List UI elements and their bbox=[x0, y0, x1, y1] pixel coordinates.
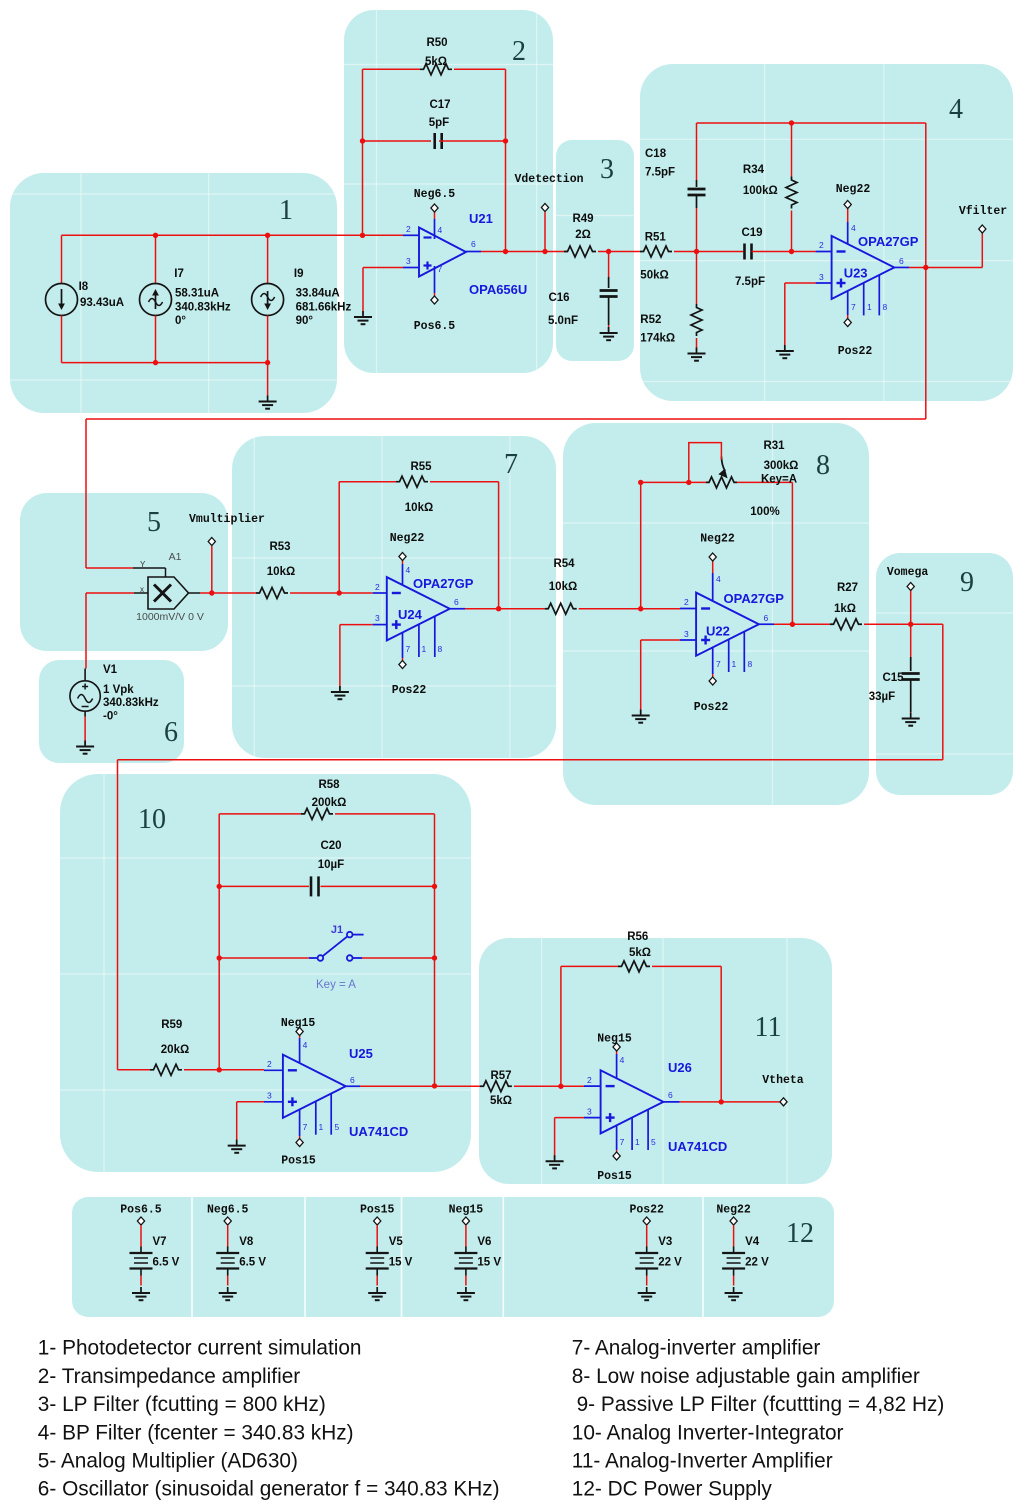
wire net input row bbox=[62, 234, 404, 236]
svg-text:6: 6 bbox=[668, 1090, 673, 1100]
region block 10 background bbox=[60, 774, 471, 1172]
value I9 bbox=[296, 288, 340, 300]
junction n10a bbox=[217, 1067, 222, 1072]
value R52 bbox=[640, 333, 675, 345]
junction C16 tap bbox=[606, 249, 611, 254]
wire from R56 bbox=[652, 965, 721, 967]
svg-text:1: 1 bbox=[422, 644, 427, 654]
svg-text:Neg22: Neg22 bbox=[836, 183, 871, 196]
svg-text:7: 7 bbox=[303, 1122, 308, 1132]
wire bbox=[376, 10, 378, 373]
svg-text:22 V: 22 V bbox=[658, 1257, 682, 1269]
wire long feedback down bbox=[85, 419, 87, 568]
value R58 bbox=[312, 797, 347, 809]
region block 9 background bbox=[876, 553, 1013, 795]
wire U23 + input bbox=[785, 282, 816, 284]
svg-text:10kΩ: 10kΩ bbox=[405, 502, 433, 514]
wire bbox=[232, 685, 556, 687]
wire U22 output bbox=[774, 623, 830, 625]
svg-text:OPA27GP: OPA27GP bbox=[413, 576, 474, 591]
node Neg22 connector connector bbox=[730, 1217, 737, 1225]
potentiometer R31 bbox=[706, 457, 737, 488]
svg-text:Neg6.5: Neg6.5 bbox=[207, 1204, 249, 1217]
svg-text:R53: R53 bbox=[269, 541, 290, 553]
value C19 bbox=[735, 276, 765, 288]
wire V3 top lead bbox=[646, 1225, 648, 1247]
node Vtheta connector bbox=[780, 1098, 787, 1106]
net Pos22 U23 bbox=[838, 345, 873, 358]
switch J1 bbox=[309, 932, 364, 961]
svg-text:100%: 100% bbox=[750, 506, 779, 518]
wire from J1 bbox=[362, 957, 435, 959]
svg-text:U23: U23 bbox=[844, 266, 868, 281]
svg-text:OPA27GP: OPA27GP bbox=[858, 234, 919, 249]
label V7 bbox=[153, 1236, 167, 1248]
block 12 divider seams bbox=[192, 1197, 703, 1317]
wire feedback right leg bbox=[434, 814, 436, 1086]
wire R27 to Vomega bbox=[864, 623, 911, 625]
part UA741CD U26 bbox=[668, 1139, 727, 1154]
value V6 bbox=[477, 1257, 501, 1269]
section number 2 bbox=[512, 36, 526, 67]
section number 3 bbox=[600, 154, 614, 185]
wire to R34 bbox=[791, 123, 793, 177]
svg-text:4: 4 bbox=[620, 1055, 625, 1065]
label R59 bbox=[161, 1019, 182, 1031]
wire bbox=[563, 522, 869, 524]
label C15 bbox=[882, 672, 904, 684]
wire U26 + input bbox=[555, 1117, 584, 1119]
svg-text:8- Low noise adjustable gain a: 8- Low noise adjustable gain amplifier bbox=[572, 1365, 920, 1388]
region block 8 background bbox=[563, 423, 869, 805]
capacitor C16 bbox=[600, 291, 618, 297]
battery V5 bbox=[366, 1247, 389, 1276]
resistor R49 bbox=[564, 246, 596, 257]
value R27 bbox=[834, 603, 856, 615]
label V8 bbox=[239, 1236, 254, 1248]
ground bbox=[902, 713, 920, 726]
wire I7 top lead bbox=[155, 235, 157, 283]
value R54 bbox=[549, 581, 577, 593]
wire V7 bottom lead bbox=[140, 1276, 142, 1286]
wire bbox=[60, 857, 471, 859]
label A1 bbox=[169, 551, 182, 563]
wire U25 output bbox=[360, 1085, 480, 1087]
svg-text:4- BP Filter (fcenter = 340.83: 4- BP Filter (fcenter = 340.83 kHz) bbox=[38, 1421, 354, 1444]
svg-text:Neg22: Neg22 bbox=[700, 533, 735, 546]
label R51 bbox=[645, 232, 667, 244]
svg-text:300kΩ: 300kΩ bbox=[764, 460, 799, 472]
resistor R52 bbox=[691, 304, 702, 336]
wire to R31 bbox=[641, 481, 706, 483]
label U22 bbox=[706, 624, 730, 639]
wire Vfilter stub bbox=[981, 233, 983, 267]
svg-text:6: 6 bbox=[471, 239, 476, 249]
wire U26 pin4 stub bbox=[616, 1051, 618, 1054]
junction n1d bbox=[153, 360, 158, 365]
wire C19 to U23 bbox=[752, 251, 816, 253]
svg-text:I7: I7 bbox=[174, 268, 184, 280]
ground bbox=[776, 345, 794, 358]
node Pos6.5 at U21 connector bbox=[431, 296, 438, 304]
svg-text:1kΩ: 1kΩ bbox=[834, 603, 856, 615]
svg-text:OPA27GP: OPA27GP bbox=[724, 591, 785, 606]
wire bbox=[883, 64, 885, 401]
net Neg15 U26 bbox=[597, 1033, 632, 1046]
wire bbox=[344, 64, 553, 66]
wire long feedback horizontal bbox=[86, 418, 926, 420]
svg-text:Neg15: Neg15 bbox=[597, 1033, 632, 1046]
wire X lead bbox=[134, 592, 148, 594]
freq V1 bbox=[103, 697, 159, 709]
wire to R50 bbox=[363, 68, 421, 70]
junction n8d bbox=[790, 622, 795, 627]
value I7 bbox=[175, 288, 219, 300]
ground bbox=[331, 686, 349, 699]
svg-text:UA741CD: UA741CD bbox=[668, 1139, 727, 1154]
op-amp U21 bbox=[403, 219, 481, 293]
wire to C17 bbox=[363, 140, 432, 142]
svg-text:6: 6 bbox=[164, 717, 178, 748]
value A1 bbox=[136, 611, 204, 623]
section number 12 bbox=[786, 1218, 814, 1249]
junction n2a bbox=[360, 138, 365, 143]
svg-text:U21: U21 bbox=[469, 211, 493, 226]
net Pos6.5 bbox=[414, 320, 456, 333]
value R49 bbox=[575, 229, 591, 241]
svg-text:C15: C15 bbox=[882, 672, 904, 684]
wire to R58 bbox=[219, 813, 301, 815]
wire to ground bbox=[339, 625, 341, 690]
wire to R56 bbox=[561, 965, 618, 967]
wire from R50 bbox=[454, 68, 506, 70]
label R52 bbox=[640, 314, 661, 326]
wire A1 output lead bbox=[189, 592, 201, 594]
value I8 bbox=[80, 297, 124, 309]
value C15 bbox=[869, 691, 895, 703]
section number 8 bbox=[816, 450, 830, 481]
wire V1 to ground bbox=[84, 717, 86, 745]
junction n11a bbox=[558, 1084, 563, 1089]
switch J1 label bbox=[331, 924, 343, 936]
wire to R52 bbox=[696, 252, 698, 305]
net Neg22 bbox=[716, 1204, 751, 1217]
svg-text:4: 4 bbox=[949, 94, 963, 125]
value R56 bbox=[629, 947, 651, 959]
svg-text:9: 9 bbox=[960, 567, 974, 598]
wire bbox=[764, 64, 766, 401]
label V5 bbox=[389, 1236, 404, 1248]
svg-text:7: 7 bbox=[620, 1137, 625, 1147]
wire U25 pin7 stub bbox=[299, 1136, 301, 1139]
ground bbox=[600, 327, 618, 340]
source V1 bbox=[70, 681, 100, 711]
svg-text:2: 2 bbox=[684, 597, 689, 607]
wire bbox=[640, 138, 1013, 140]
node Neg22 at U22 connector bbox=[709, 553, 716, 561]
junction n9a bbox=[908, 622, 913, 627]
svg-text:3: 3 bbox=[819, 272, 824, 282]
switch J1 key label bbox=[316, 979, 356, 991]
phase I9 bbox=[296, 315, 314, 327]
junction n1b bbox=[265, 233, 270, 238]
label U24 bbox=[398, 607, 423, 622]
svg-text:7: 7 bbox=[406, 644, 411, 654]
wire to C16 bbox=[608, 252, 610, 278]
region block 2 background bbox=[344, 10, 553, 373]
value V1 bbox=[103, 684, 134, 696]
value C20 bbox=[318, 859, 344, 871]
op-amp U26 bbox=[584, 1054, 680, 1150]
wire to right loop bbox=[911, 623, 943, 625]
wire from R58 bbox=[335, 813, 435, 815]
wire U21 output bbox=[481, 251, 567, 253]
node Pos15 connector connector bbox=[374, 1217, 381, 1225]
junction n10b bbox=[217, 884, 222, 889]
wire V1 to X input bbox=[85, 593, 87, 669]
svg-text:33µF: 33µF bbox=[869, 691, 895, 703]
svg-text:C18: C18 bbox=[645, 148, 667, 160]
svg-text:Neg15: Neg15 bbox=[449, 1204, 484, 1217]
wire R59 to U25 bbox=[184, 1069, 264, 1071]
label R50 bbox=[426, 37, 447, 49]
node Pos15 at U26 connector bbox=[613, 1152, 620, 1160]
svg-text:I8: I8 bbox=[79, 281, 89, 293]
svg-text:10µF: 10µF bbox=[318, 859, 344, 871]
label C18 bbox=[645, 148, 667, 160]
svg-text:V8: V8 bbox=[239, 1236, 254, 1248]
svg-text:3: 3 bbox=[587, 1107, 592, 1117]
label I8 bbox=[79, 281, 89, 293]
svg-text:6: 6 bbox=[764, 613, 769, 623]
svg-text:5kΩ: 5kΩ bbox=[629, 947, 651, 959]
wire feedback right leg bbox=[505, 69, 507, 251]
wire R51 to C19 bbox=[674, 251, 744, 253]
ground bbox=[219, 1287, 237, 1300]
svg-text:8: 8 bbox=[883, 302, 888, 312]
section number 9 bbox=[960, 567, 974, 598]
junction n7a bbox=[337, 590, 342, 595]
wire to Y input bbox=[86, 567, 133, 569]
wire C15 lead2 bbox=[910, 680, 912, 713]
wire to R59 bbox=[118, 1069, 151, 1071]
wire bbox=[60, 1089, 471, 1091]
node Vmultiplier connector bbox=[208, 538, 215, 546]
svg-text:Pos15: Pos15 bbox=[360, 1204, 395, 1217]
svg-text:10kΩ: 10kΩ bbox=[549, 581, 577, 593]
wire C16 lead bbox=[608, 277, 610, 288]
net Pos15 U26 bbox=[597, 1170, 632, 1183]
section number 6 bbox=[164, 717, 178, 748]
wire U22 pin4 stub bbox=[712, 561, 714, 573]
section number 4 bbox=[949, 94, 963, 125]
capacitor C15 bbox=[902, 674, 920, 680]
svg-text:10- Analog Inverter-Integrator: 10- Analog Inverter-Integrator bbox=[572, 1421, 844, 1444]
svg-text:Vmultiplier: Vmultiplier bbox=[189, 513, 265, 526]
wire V1 top lead bbox=[84, 669, 86, 682]
label R56 bbox=[627, 931, 648, 943]
svg-text:1: 1 bbox=[867, 302, 872, 312]
wire Vdetection stub bbox=[544, 212, 546, 252]
label U26 bbox=[668, 1060, 692, 1075]
net Pos15 U25 bbox=[281, 1155, 316, 1168]
svg-text:100kΩ: 100kΩ bbox=[743, 185, 778, 197]
net Vdetection bbox=[514, 173, 583, 186]
junction n8b bbox=[638, 480, 643, 485]
wire U22 pin7 stub bbox=[712, 674, 714, 677]
multiplier A1 input letters bbox=[140, 560, 146, 594]
wire V7 top lead bbox=[140, 1225, 142, 1247]
svg-text:Pos6.5: Pos6.5 bbox=[120, 1204, 162, 1217]
svg-text:2: 2 bbox=[267, 1059, 272, 1069]
svg-text:8: 8 bbox=[816, 450, 830, 481]
wire bbox=[556, 215, 634, 217]
value R55 bbox=[405, 502, 433, 514]
ground bbox=[638, 1287, 656, 1300]
svg-text:6.5 V: 6.5 V bbox=[153, 1257, 180, 1269]
svg-text:3- LP Filter (fcutting = 800 k: 3- LP Filter (fcutting = 800 kHz) bbox=[38, 1393, 326, 1416]
label C17 bbox=[429, 99, 450, 111]
svg-text:R55: R55 bbox=[410, 461, 432, 473]
wire I8 bottom lead bbox=[61, 316, 63, 363]
node Pos22 connector connector bbox=[643, 1217, 650, 1225]
svg-text:6: 6 bbox=[454, 597, 459, 607]
svg-text:Pos22: Pos22 bbox=[629, 1204, 664, 1217]
current source I8 bbox=[46, 284, 78, 316]
svg-text:7.5pF: 7.5pF bbox=[645, 167, 675, 179]
op-amp U25 pin numbers bbox=[267, 1040, 355, 1132]
wire U26 output bbox=[680, 1101, 780, 1103]
svg-text:1- Photodetector current simul: 1- Photodetector current simulation bbox=[38, 1337, 362, 1360]
wire R31 right leg bbox=[791, 482, 793, 624]
wire to ground bbox=[362, 268, 364, 316]
junction n10d bbox=[432, 884, 437, 889]
node Pos22 at U22 connector bbox=[709, 677, 716, 685]
wire U23 pin7 stub bbox=[847, 315, 849, 319]
wire U25 pin4 stub bbox=[299, 1036, 301, 1039]
value R51 bbox=[640, 270, 668, 282]
wire bbox=[640, 381, 1013, 383]
svg-text:C20: C20 bbox=[320, 840, 341, 852]
resistor R53 bbox=[256, 588, 288, 599]
svg-text:R34: R34 bbox=[743, 164, 765, 176]
net Neg15 U25 bbox=[281, 1017, 316, 1030]
node Neg6.5 at U21 connector bbox=[431, 204, 438, 212]
svg-text:6: 6 bbox=[350, 1075, 355, 1085]
op-amp U22 pin numbers bbox=[684, 574, 769, 669]
node Neg15 at U25 connector bbox=[296, 1028, 303, 1036]
current source I9 bbox=[252, 284, 284, 316]
label V4 bbox=[745, 1236, 760, 1248]
net Pos22 bbox=[629, 1204, 664, 1217]
net Neg6.5 bbox=[207, 1204, 249, 1217]
wire Vmultiplier stub bbox=[211, 546, 213, 593]
svg-text:C17: C17 bbox=[429, 99, 450, 111]
node Pos15 at U25 connector bbox=[296, 1139, 303, 1147]
wire C15 lead bbox=[910, 657, 912, 671]
wire feedback left leg bbox=[218, 814, 220, 1070]
svg-text:2- Transimpedance amplifier: 2- Transimpedance amplifier bbox=[38, 1365, 300, 1388]
svg-text:7- Analog-inverter amplifier: 7- Analog-inverter amplifier bbox=[572, 1337, 821, 1360]
wire bbox=[876, 753, 1013, 755]
label V1 bbox=[103, 664, 118, 676]
wire R55 left leg bbox=[338, 482, 340, 593]
svg-text:2: 2 bbox=[587, 1075, 592, 1085]
junction n10c bbox=[217, 955, 222, 960]
wire V5 bottom lead bbox=[376, 1276, 378, 1286]
wire U25 + input bbox=[237, 1101, 264, 1103]
svg-text:1: 1 bbox=[732, 659, 737, 669]
junction Vmultiplier tap bbox=[209, 590, 214, 595]
wire to ground bbox=[236, 1102, 238, 1144]
wire to ground bbox=[554, 1118, 556, 1160]
svg-text:4: 4 bbox=[406, 565, 411, 575]
wire U24 + input bbox=[340, 624, 373, 626]
wire C16 lead2 bbox=[608, 297, 610, 326]
svg-text:12- DC Power Supply: 12- DC Power Supply bbox=[572, 1478, 773, 1501]
label R49 bbox=[572, 213, 593, 225]
wire right loop down bbox=[942, 624, 944, 760]
svg-text:4: 4 bbox=[438, 225, 443, 235]
svg-text:Neg22: Neg22 bbox=[716, 1204, 751, 1217]
part OPA27GP U24 bbox=[413, 576, 474, 591]
svg-text:2: 2 bbox=[819, 240, 824, 250]
svg-text:C19: C19 bbox=[741, 227, 762, 239]
part UA741CD U25 bbox=[349, 1124, 408, 1139]
region block 6 background bbox=[39, 660, 184, 763]
svg-text:3: 3 bbox=[267, 1091, 272, 1101]
part OPA27GP U23 bbox=[858, 234, 919, 249]
svg-text:15 V: 15 V bbox=[477, 1257, 501, 1269]
svg-text:Vomega: Vomega bbox=[887, 566, 929, 579]
battery V6 bbox=[454, 1247, 477, 1276]
svg-text:58.31uA: 58.31uA bbox=[175, 288, 219, 300]
region block 1 background bbox=[10, 173, 337, 413]
label U25 bbox=[349, 1046, 373, 1061]
value V3 bbox=[658, 1257, 682, 1269]
svg-text:5kΩ: 5kΩ bbox=[490, 1095, 512, 1107]
label U21 bbox=[469, 211, 493, 226]
wire R31 wiper loop bbox=[689, 443, 722, 483]
current source I7 bbox=[140, 284, 172, 316]
net Pos22 U24 bbox=[392, 684, 427, 697]
wire Vomega down bbox=[910, 591, 912, 657]
resistor R59 bbox=[150, 1064, 182, 1075]
value R50 bbox=[425, 56, 447, 68]
wire down to long run bbox=[925, 267, 927, 419]
junction n8c bbox=[686, 480, 691, 485]
svg-text:200kΩ: 200kΩ bbox=[312, 797, 347, 809]
label R57 bbox=[490, 1070, 511, 1082]
wire V8 bottom lead bbox=[227, 1276, 229, 1286]
wire V4 bottom lead bbox=[733, 1276, 735, 1286]
junction n10f bbox=[432, 1083, 437, 1088]
svg-text:6: 6 bbox=[899, 256, 904, 266]
net Pos6.5 bbox=[120, 1204, 162, 1217]
node Neg15 connector connector bbox=[462, 1217, 469, 1225]
wire bbox=[253, 436, 255, 758]
label C16 bbox=[548, 292, 569, 304]
svg-text:8: 8 bbox=[438, 644, 443, 654]
svg-text:3: 3 bbox=[375, 613, 380, 623]
junction n7b bbox=[496, 606, 501, 611]
junction n1a bbox=[153, 233, 158, 238]
ground bbox=[546, 1155, 564, 1168]
net Vmultiplier bbox=[189, 513, 265, 526]
wire bbox=[563, 650, 869, 652]
svg-text:Key=A: Key=A bbox=[761, 474, 797, 486]
wire U26 pin7 stub bbox=[616, 1150, 618, 1152]
